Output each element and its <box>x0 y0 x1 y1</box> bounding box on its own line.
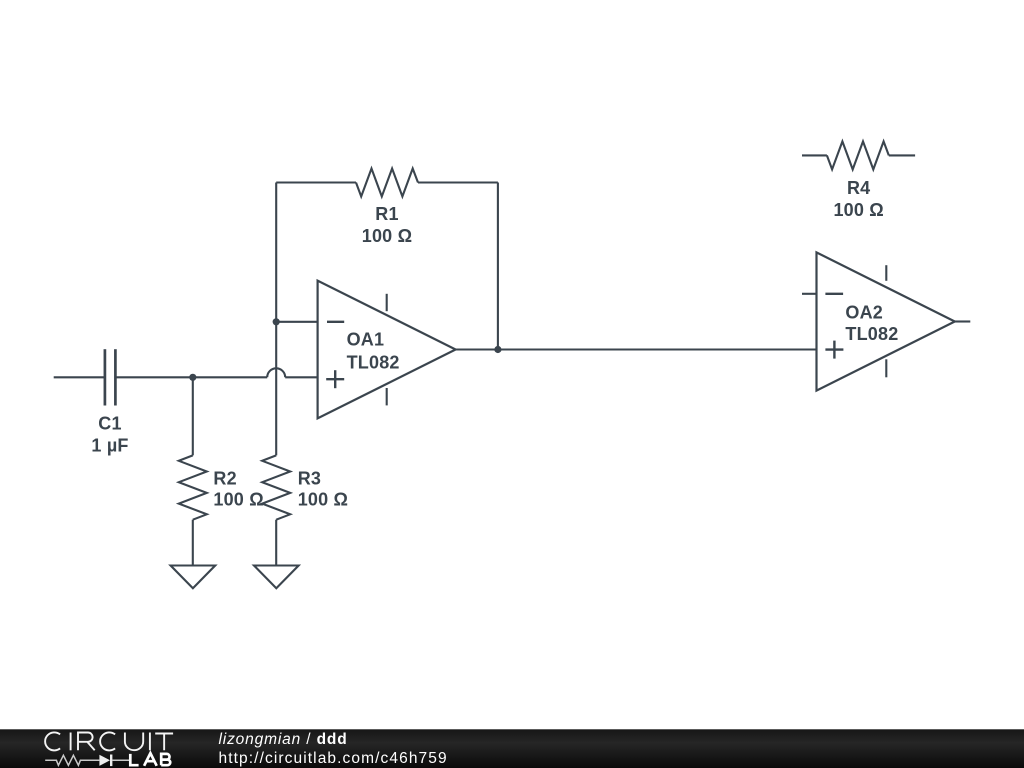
junction dot output node <box>494 346 501 353</box>
resistor R3 <box>262 455 290 519</box>
wire: - node to OA1 - input <box>276 321 317 323</box>
wire: C1 to hop <box>115 376 267 378</box>
svg-text:100 Ω: 100 Ω <box>362 226 412 246</box>
junction dot - input node <box>273 318 280 325</box>
op-amp OA2 <box>802 252 970 390</box>
OA1 V- power pin <box>386 388 388 405</box>
wire: hop over R3 branch <box>267 368 285 377</box>
svg-text:TL082: TL082 <box>845 324 898 344</box>
OA2 output stub <box>955 320 971 322</box>
wire: R3 to ground <box>275 520 277 566</box>
wire: feedback left vertical from R1 through - node and hop down to R3 <box>275 183 277 456</box>
capacitor C1 <box>105 349 116 405</box>
ground (below R3) <box>254 566 299 589</box>
svg-text:OA1: OA1 <box>347 330 385 350</box>
svg-text:100 Ω: 100 Ω <box>213 489 263 509</box>
wire: feedback right vertical down to output node <box>497 183 499 350</box>
svg-text:100 Ω: 100 Ω <box>298 489 348 509</box>
OA2 - input stub <box>802 293 817 295</box>
svg-text:lizongmian / ddd: lizongmian / ddd <box>219 731 348 748</box>
wire: input lead to C1 <box>54 376 105 378</box>
svg-text:R1: R1 <box>375 204 398 224</box>
wire: OA1 output to OA2 + input <box>456 348 817 350</box>
CircuitLab logo: CIRCUIT wordmark <box>45 732 173 750</box>
op-amp OA1 <box>318 281 456 419</box>
CircuitLab logo: LAB <box>130 753 170 766</box>
CircuitLab logo: resistor-diode squiggle <box>45 755 129 765</box>
wire: R1 left lead <box>276 181 356 183</box>
ground (below R2) <box>171 566 216 589</box>
OA1 - input marker <box>327 321 344 323</box>
junction dot node A (C1/R2/OA1+) <box>189 374 196 381</box>
svg-text:TL082: TL082 <box>347 352 400 372</box>
OA1 + input marker <box>326 378 344 380</box>
OA2 V- power pin <box>885 359 887 377</box>
svg-text:R3: R3 <box>298 468 321 488</box>
resistor R2 <box>179 455 207 519</box>
svg-text:OA2: OA2 <box>845 302 883 322</box>
wire: R2 to ground <box>192 520 194 566</box>
svg-text:http://circuitlab.com/c46h759: http://circuitlab.com/c46h759 <box>219 750 448 767</box>
resistor R4 leads <box>802 154 827 156</box>
resistor R4 <box>827 141 889 169</box>
svg-text:C1: C1 <box>98 413 121 433</box>
svg-text:R4: R4 <box>847 178 870 198</box>
OA2 - input marker <box>825 293 843 295</box>
wire: R1 right lead <box>418 181 498 183</box>
svg-text:1 µF: 1 µF <box>91 435 128 455</box>
OA2 + input marker <box>825 348 843 350</box>
OA1 V+ power pin <box>386 294 388 311</box>
svg-text:100 Ω: 100 Ω <box>833 200 883 220</box>
resistor R1 <box>356 169 418 197</box>
wire: hop to OA1 + input <box>285 376 317 378</box>
wire: node A down to R2 <box>192 377 194 455</box>
svg-text:R2: R2 <box>213 468 236 488</box>
footer bar <box>0 729 1024 768</box>
OA2 V+ power pin <box>885 265 887 281</box>
